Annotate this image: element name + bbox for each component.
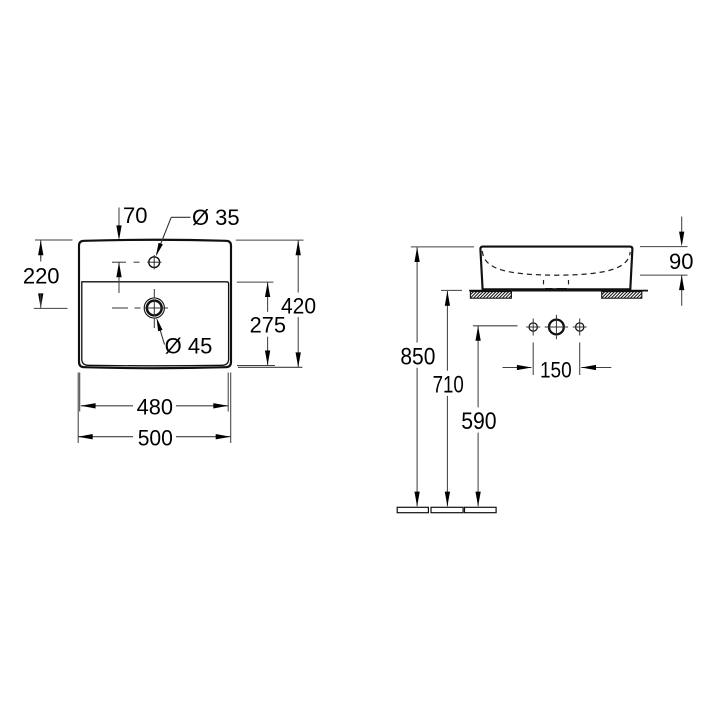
svg-text:70: 70 bbox=[123, 203, 147, 228]
svg-text:710: 710 bbox=[433, 371, 464, 398]
svg-text:500: 500 bbox=[138, 426, 173, 451]
svg-text:Ø 45: Ø 45 bbox=[165, 334, 213, 359]
svg-text:480: 480 bbox=[137, 394, 173, 419]
svg-text:Ø 35: Ø 35 bbox=[192, 205, 240, 230]
svg-text:850: 850 bbox=[400, 343, 435, 370]
svg-text:420: 420 bbox=[281, 293, 316, 318]
svg-text:150: 150 bbox=[540, 358, 572, 383]
svg-text:590: 590 bbox=[461, 408, 496, 435]
svg-text:90: 90 bbox=[669, 249, 693, 274]
svg-text:275: 275 bbox=[250, 313, 286, 338]
svg-text:220: 220 bbox=[23, 263, 60, 288]
